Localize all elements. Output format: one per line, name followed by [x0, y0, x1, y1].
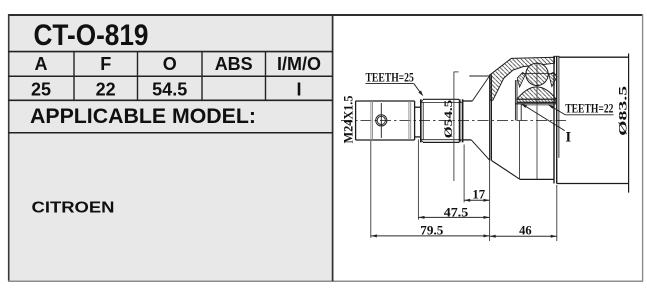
svg-text:I: I: [566, 129, 572, 145]
svg-text:CT-O-819: CT-O-819: [34, 19, 149, 52]
svg-text:A: A: [35, 54, 48, 74]
svg-text:Ø54.5: Ø54.5: [443, 99, 455, 138]
svg-text:54.5: 54.5: [152, 79, 187, 99]
svg-text:ABS: ABS: [215, 54, 253, 74]
svg-text:22: 22: [96, 79, 116, 99]
svg-text:TEETH=22: TEETH=22: [565, 102, 613, 116]
svg-text:I: I: [296, 79, 301, 99]
svg-text:46: 46: [519, 223, 532, 237]
svg-text:25: 25: [31, 79, 51, 99]
svg-text:F: F: [100, 54, 111, 74]
svg-text:APPLICABLE MODEL:: APPLICABLE MODEL:: [30, 104, 256, 128]
svg-text:O: O: [163, 54, 177, 74]
svg-text:M24X1.5: M24X1.5: [342, 96, 356, 144]
svg-text:CITROEN: CITROEN: [32, 199, 115, 216]
svg-text:47.5: 47.5: [444, 206, 469, 220]
svg-text:Ø83.5: Ø83.5: [618, 85, 630, 135]
svg-text:79.5: 79.5: [420, 224, 443, 238]
svg-text:I/M/O: I/M/O: [277, 54, 321, 74]
svg-text:17: 17: [472, 188, 485, 202]
svg-text:TEETH=25: TEETH=25: [366, 71, 414, 85]
